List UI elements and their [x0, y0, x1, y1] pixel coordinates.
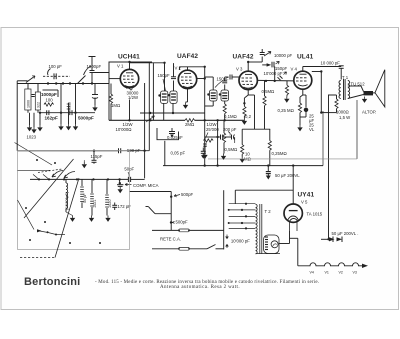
svg-text:V 1: V 1	[117, 64, 124, 69]
svg-text:1023: 1023	[27, 135, 37, 140]
svg-text:V2: V2	[339, 271, 343, 275]
162pF + 5000pF caps in series	[47, 110, 72, 115]
screen bus y=113.5	[140, 112, 205, 114]
svg-text:V 5: V 5	[301, 200, 308, 205]
0.25M lower resistor	[269, 129, 271, 140]
svg-text:TA 1015: TA 1015	[307, 212, 323, 217]
svg-text:VL: VL	[309, 127, 315, 132]
115pF cap gnd	[93, 151, 95, 160]
chassis light line y=158.9	[208, 158, 357, 160]
svg-text:UL41: UL41	[297, 54, 314, 61]
1000pF/100 bracket	[43, 89, 59, 91]
tube V1 UCH41	[120, 69, 138, 87]
svg-text:10'000Ω: 10'000Ω	[116, 127, 133, 132]
right small loop x=254.5	[254, 95, 256, 129]
mains wires	[152, 229, 180, 231]
long vertical x=144.6 (AVC)	[144, 83, 146, 178]
svg-text:UY41: UY41	[298, 191, 315, 198]
wire y=191.5 to mains column	[130, 191, 172, 193]
column D	[106, 179, 108, 194]
svg-text:0,1MΩ: 0,1MΩ	[224, 114, 238, 119]
svg-text:V4: V4	[310, 271, 314, 275]
1000ohm resistor	[336, 95, 338, 99]
comp mica trimmer	[119, 179, 121, 183]
V2 top wire	[180, 66, 205, 68]
T2 feeder lines	[229, 204, 256, 229]
tube V5 UY41	[284, 204, 302, 231]
slanted 10000pF cap	[278, 76, 283, 81]
lower main bus y=165.6	[163, 165, 323, 167]
switch wafer diagonals	[24, 159, 74, 218]
svg-text:0,25 MΩ: 0,25 MΩ	[278, 108, 295, 113]
grid cap to V3	[225, 76, 229, 78]
wire y=137 caps 200pF	[205, 136, 220, 138]
svg-text:UAF42: UAF42	[233, 54, 254, 61]
svg-text:10'000 pF: 10'000 pF	[231, 239, 250, 244]
25000 resistor + gnd	[204, 137, 206, 140]
svg-text:2MΩ: 2MΩ	[185, 122, 195, 127]
contact dots on wire	[38, 178, 109, 180]
svg-text:1000pF: 1000pF	[87, 64, 102, 69]
ground cluster left	[27, 125, 32, 131]
bypass cap 25uF	[303, 94, 306, 96]
svg-text:1MΩ: 1MΩ	[111, 103, 121, 108]
IF transformer 1	[161, 91, 177, 103]
column C	[91, 179, 93, 193]
100 ohm resistor h	[44, 103, 54, 106]
column B	[81, 179, 83, 186]
svg-text:10'000 pF: 10'000 pF	[264, 71, 283, 76]
shallow diagonal	[15, 143, 53, 166]
pilot lamp	[264, 235, 280, 254]
trimmer cap 100pF	[54, 73, 56, 79]
svg-text:50 μF 200VL: 50 μF 200VL	[275, 173, 300, 178]
V3 top cap 10000pF	[247, 62, 249, 71]
svg-text:UAF42: UAF42	[177, 53, 198, 60]
svg-text:200 pF: 200 pF	[223, 127, 237, 132]
vertical x=149.3	[148, 63, 150, 151]
power box left edge	[223, 190, 225, 249]
IF1 bottoms	[163, 103, 165, 120]
svg-text:0,5MΩ: 0,5MΩ	[262, 89, 276, 94]
UY41 plate wire	[292, 166, 294, 204]
curved cap to gnd at 95	[94, 84, 96, 95]
tube V2 UAF42	[178, 70, 196, 88]
V1 top to anode line	[129, 63, 131, 70]
svg-text:RETE C.A.: RETE C.A.	[160, 237, 181, 242]
V4 cathode	[302, 89, 304, 95]
switch contact mid	[78, 76, 86, 84]
tuning box outline	[18, 151, 130, 250]
svg-text:162pF: 162pF	[45, 115, 58, 120]
UCH41 shield box	[109, 62, 152, 120]
svg-text:COMP. MICA: COMP. MICA	[133, 183, 159, 188]
top wire to UY41	[235, 189, 293, 191]
antenna switch top-left	[26, 76, 35, 83]
V4 top / output	[302, 67, 304, 72]
1M resistor	[110, 84, 112, 95]
svg-text:1/2W: 1/2W	[128, 95, 139, 100]
svg-text:10000 pF: 10000 pF	[274, 53, 293, 58]
svg-text:10 000 pF: 10 000 pF	[321, 60, 341, 65]
150pF trimmer row	[262, 64, 267, 66]
wire y=179.4 with 50pF series cap	[30, 178, 128, 180]
IF transformer 2	[210, 90, 229, 101]
svg-text:1000pF: 1000pF	[41, 92, 57, 97]
svg-text:0,05 pF: 0,05 pF	[171, 151, 186, 156]
speaker	[364, 70, 385, 107]
osc coil column A	[65, 179, 67, 183]
svg-text:V1: V1	[325, 271, 329, 275]
0.1M resistor below IF2	[224, 101, 226, 104]
svg-text:0,25MΩ: 0,25MΩ	[272, 151, 288, 156]
svg-text:1000: 1000	[27, 100, 31, 108]
T2 primary coil	[256, 204, 262, 254]
500pF cap on y150.7 bus	[18, 150, 119, 152]
filament chain	[298, 263, 363, 266]
V2 bottom	[187, 89, 189, 102]
svg-text:ALTOP.: ALTOP.	[362, 110, 376, 115]
horizontal antenna row	[17, 83, 109, 85]
output box	[329, 95, 337, 239]
T1 to speaker	[348, 85, 361, 87]
svg-text:100: 100	[46, 98, 54, 103]
tuning arrows	[52, 171, 63, 178]
vertical input components column	[27, 84, 29, 90]
junction dots on main buses	[47, 82, 49, 84]
main bus y=120.3	[109, 119, 185, 121]
svg-text:V 2: V 2	[175, 65, 182, 70]
left antenna bus vertical	[16, 81, 18, 151]
svg-text:Antenna automatica. Resa 2 wat: Antenna automatica. Resa 2 watt.	[160, 285, 240, 290]
10000pF arrows	[226, 235, 228, 239]
svg-text:500pF: 500pF	[176, 220, 189, 225]
svg-text:150pF: 150pF	[158, 73, 171, 78]
0.025 cap + detector box	[157, 128, 179, 140]
dashed mechanical link	[20, 257, 55, 259]
output transformer T1	[339, 79, 350, 100]
svg-text:322: 322	[37, 102, 41, 108]
label pointer arrow	[146, 116, 155, 122]
svg-text:500pF: 500pF	[181, 192, 194, 197]
0.5M resistor + gnd	[223, 120, 225, 133]
tube V3 UAF42	[239, 71, 257, 89]
svg-text:Bertoncini: Bertoncini	[24, 276, 80, 288]
switch dots and contacts bottom-left	[37, 231, 56, 235]
2M resistor on bus	[185, 119, 195, 122]
svg-text:V3: V3	[353, 271, 357, 275]
svg-text:0,5MΩ: 0,5MΩ	[225, 147, 239, 152]
V1 cathode down w 30000	[129, 87, 131, 90]
svg-text:V 4: V 4	[291, 66, 298, 71]
tube V4 UL41	[294, 71, 312, 89]
V2 right to vertical	[197, 78, 205, 80]
UY41 bottom legs to filament chain	[289, 231, 291, 244]
svg-text:5000pF: 5000pF	[78, 116, 94, 121]
0.25M upper resistor	[264, 81, 266, 96]
svg-text:50 μF 200VL .: 50 μF 200VL .	[332, 231, 359, 236]
0.5M grid resistor V4	[286, 81, 288, 85]
svg-text:1000Ω: 1000Ω	[336, 110, 350, 115]
detector box mid	[164, 141, 166, 166]
172pF cap	[114, 203, 116, 206]
svg-text:100 pF: 100 pF	[49, 64, 63, 69]
antenna T + 1000pF cap	[89, 56, 96, 58]
svg-text:T 2: T 2	[265, 209, 272, 214]
svg-text:UCH41: UCH41	[118, 53, 140, 60]
tuning cap dashed row	[43, 75, 70, 77]
V3 cathode column	[247, 90, 249, 95]
0.05 cap to gnd	[202, 148, 204, 152]
500pF caps + switch to mains	[170, 192, 172, 231]
svg-text:1,5 W: 1,5 W	[339, 115, 351, 120]
vertical x=153.4	[152, 63, 154, 120]
svg-text:115pF: 115pF	[91, 154, 103, 159]
50uF 200VL cap below bus	[267, 166, 269, 172]
V3 anode to V4 grid wire	[257, 79, 294, 82]
svg-text:V 3: V 3	[236, 67, 243, 72]
